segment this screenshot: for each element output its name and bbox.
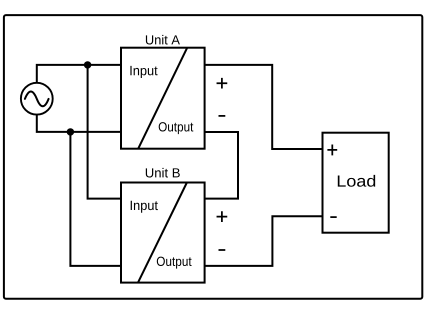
label Input (Unit B) [131, 201, 158, 213]
load [323, 133, 389, 233]
junction node bottom [67, 128, 74, 135]
label Unit A [146, 35, 180, 45]
junction node top [84, 61, 91, 68]
minus terminal label (Unit B) [219, 249, 226, 251]
plus terminal label (Unit B) [217, 211, 228, 222]
wire Unit A minus to Unit B plus [205, 132, 238, 199]
label Input (Unit A) [130, 66, 157, 78]
wire bottom rail (source to Unit A input) [37, 114, 121, 132]
plus terminal label (Unit A) [217, 78, 228, 89]
wire Unit A plus to Load plus [205, 65, 323, 149]
wire branch to Unit B input top [88, 65, 121, 199]
label Output (Unit A) [159, 122, 194, 134]
minus terminal label (Unit A) [219, 115, 226, 117]
wire Unit B minus to Load minus [205, 216, 323, 266]
plus terminal label (Load) [327, 144, 337, 155]
wire branch to Unit B input bottom [70, 132, 121, 266]
ac source [21, 83, 53, 115]
label Load [338, 175, 375, 187]
label Unit B [146, 168, 180, 178]
converter Unit B [121, 183, 205, 283]
wire top rail (source to Unit A input) [37, 65, 121, 83]
label Output (Unit B) [157, 257, 192, 269]
minus terminal label (Load) [330, 216, 336, 218]
converter Unit A [121, 48, 205, 149]
